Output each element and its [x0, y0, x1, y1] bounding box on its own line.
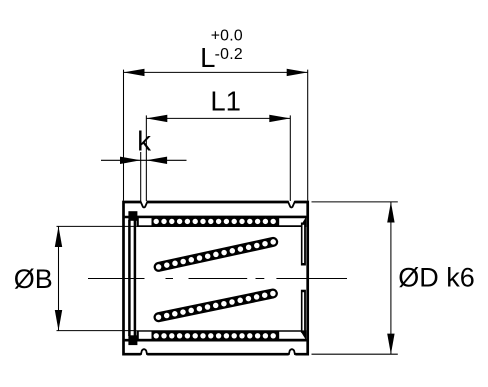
dimension L line	[124, 71, 308, 73]
dimension OD arrow top	[387, 202, 394, 223]
svg-text:k: k	[137, 126, 151, 157]
cage sleeve right lower bracket	[301, 290, 306, 333]
dimension OB arrow top	[55, 226, 62, 247]
svg-text:-0.2: -0.2	[215, 46, 243, 63]
svg-text:+0.0: +0.0	[211, 27, 243, 44]
dimension L1 arrow left	[146, 115, 167, 122]
lower diagonal ball track	[156, 291, 276, 320]
dimension OB arrow bottom	[55, 310, 62, 331]
dimension OB line	[58, 226, 60, 330]
sleeve inner surface top line	[125, 216, 307, 219]
dimension OD extension bottom	[312, 353, 398, 355]
dimension L1 line	[146, 117, 290, 119]
cage window bottom-right (chamfered)	[279, 332, 305, 339]
circlip groove bottom-left (arch notch)	[141, 349, 147, 355]
dimension k arrow right (outside pointing left)	[146, 157, 167, 164]
bore extension line bottom (to OB dim)	[57, 330, 137, 332]
svg-text:L: L	[200, 42, 215, 73]
dimension k line	[101, 159, 187, 161]
dimension L extension right	[307, 70, 309, 201]
cage window bottom-left	[139, 332, 152, 339]
dimension L extension left	[123, 70, 125, 201]
dimension OD arrow bottom	[387, 334, 394, 355]
dimension L arrow right	[287, 69, 308, 76]
cage window top-right (chamfered)	[279, 218, 305, 225]
circlip groove top-right (V notch)	[288, 201, 295, 207]
seal retainer square top	[128, 211, 137, 221]
svg-text:ØD k6: ØD k6	[398, 262, 475, 292]
dimension k arrow left (outside pointing right)	[120, 157, 141, 164]
top ball track band	[137, 216, 307, 227]
cage window top-left	[139, 218, 152, 225]
sleeve inner surface bottom line	[125, 339, 307, 342]
dimension L1 extension left	[145, 115, 147, 201]
dimension OD extension top	[312, 201, 398, 203]
balls top row	[154, 219, 276, 224]
body outline (outer sleeve)	[124, 202, 308, 354]
dimension L1 extension right	[289, 115, 291, 201]
dimension L1 arrow right	[269, 115, 290, 122]
circlip groove top-left (V notch)	[140, 201, 147, 207]
dimension OD line	[390, 202, 392, 354]
balls bottom row	[154, 333, 276, 338]
bore extension line top (to OB dim)	[57, 225, 137, 227]
dimension k extension left	[140, 152, 142, 201]
circlip groove bottom-right (arch notch)	[289, 349, 295, 355]
dimension L arrow left	[124, 69, 145, 76]
svg-text:ØB: ØB	[14, 264, 53, 294]
svg-text:L1: L1	[210, 85, 241, 116]
cage sleeve right upper bracket	[301, 223, 306, 266]
upper diagonal ball track	[156, 239, 276, 270]
seal left vertical lines	[129, 220, 135, 336]
centerline (dash-dot)	[88, 278, 347, 280]
bottom ball track band	[137, 330, 307, 341]
seal retainer square bottom	[128, 335, 137, 345]
